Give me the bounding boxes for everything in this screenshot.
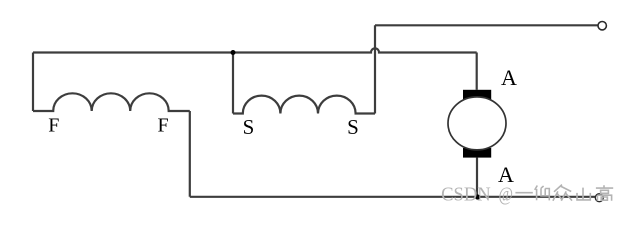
wire F right vertical down [189, 111, 191, 197]
wire armature top lead [476, 53, 478, 90]
inductor S1 series winding [233, 96, 375, 114]
svg-text:S: S [243, 115, 255, 139]
svg-text:F: F [48, 115, 59, 137]
inductor F1 field winding [33, 93, 190, 111]
watermark CSDN [441, 183, 513, 206]
svg-text:F: F [157, 115, 168, 137]
wire S left vertical [232, 53, 234, 114]
watermark chinese characters [515, 185, 613, 201]
char shan [577, 188, 590, 200]
junction node at S winding tap [231, 50, 236, 55]
armature M circle [448, 97, 506, 150]
svg-text:S: S [347, 115, 359, 139]
char yang [535, 186, 550, 201]
terminal bottom right [595, 194, 603, 202]
wire top bus [375, 24, 598, 26]
char zhong [553, 185, 572, 201]
char gao [596, 185, 613, 201]
wire left vertical [32, 53, 34, 112]
junction node at armature bottom [475, 194, 480, 199]
wire armature bottom lead [476, 158, 478, 197]
svg-text:CSDN: CSDN [441, 184, 491, 206]
svg-text:A: A [501, 65, 517, 90]
wire bottom bus [190, 196, 595, 198]
brush top of armature [463, 90, 491, 100]
brush bottom of armature [463, 148, 491, 158]
terminal top right [598, 22, 606, 30]
wire S right vertical up [374, 25, 376, 113]
wire main bus with hop [33, 48, 477, 52]
svg-text:@: @ [499, 183, 513, 205]
char yi [515, 192, 532, 194]
